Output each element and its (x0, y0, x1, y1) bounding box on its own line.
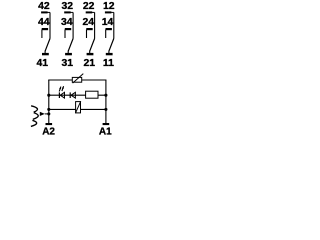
svg-text:21: 21 (84, 58, 96, 69)
svg-text:A2: A2 (42, 127, 55, 138)
svg-text:11: 11 (103, 58, 114, 69)
svg-text:44: 44 (38, 17, 50, 28)
svg-text:32: 32 (61, 1, 73, 12)
svg-text:14: 14 (102, 17, 114, 28)
svg-text:34: 34 (61, 17, 73, 28)
svg-text:31: 31 (61, 58, 73, 69)
svg-text:12: 12 (103, 1, 115, 12)
svg-text:42: 42 (38, 1, 50, 12)
svg-text:A1: A1 (99, 127, 112, 138)
svg-text:41: 41 (37, 58, 49, 69)
svg-text:24: 24 (83, 17, 95, 28)
svg-text:22: 22 (83, 1, 95, 12)
